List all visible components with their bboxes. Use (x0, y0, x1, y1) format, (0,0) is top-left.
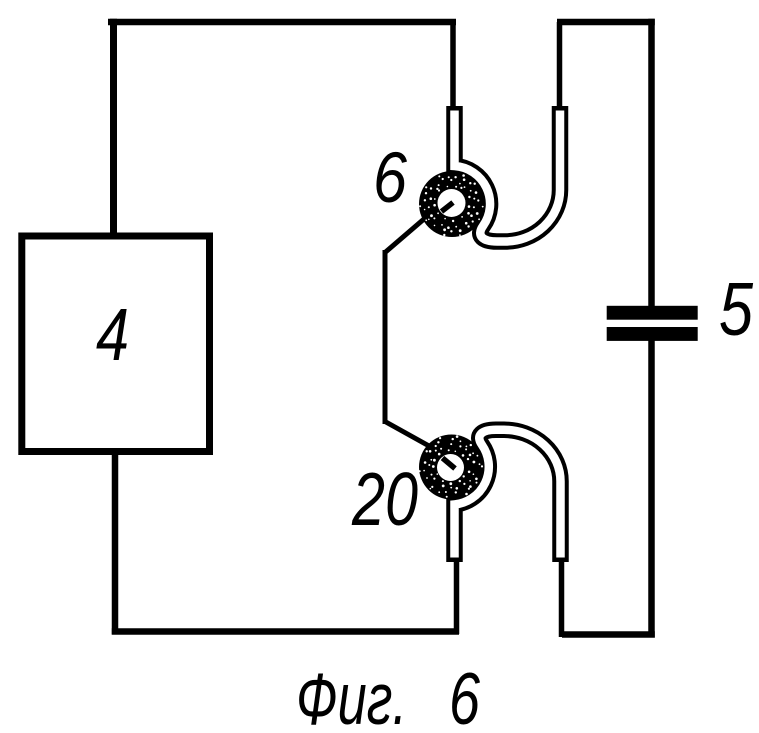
wire: lead from coupler 20 right tube end to bottom rail (559, 558, 565, 637)
svg-text:Фиг.: Фиг. (296, 659, 407, 733)
svg-text:20: 20 (351, 457, 418, 541)
wire: bottom horizontal left (112, 628, 459, 635)
svg-text:6: 6 (449, 659, 480, 733)
wire: top horizontal right (557, 19, 655, 26)
wire: middle vertical link (383, 250, 388, 424)
wire: left vertical upper (top rail down to box 4) (110, 19, 117, 233)
wire: lead from coupler 20 left tube end to bottom rail (454, 558, 460, 634)
capacitor C5 bottom plate (607, 327, 698, 341)
wire: lead from top rail to coupler 6 left tube end (450, 22, 456, 112)
wire: right vertical upper (top rail down to capacitor 5) (648, 19, 655, 306)
wire: pickup lead from middle link down-right to core 20 (385, 422, 430, 447)
svg-text:6: 6 (373, 139, 407, 218)
wire: right vertical lower (capacitor 5 down to bottom right rail) (648, 340, 655, 638)
wire: lead from top rail to coupler 6 right tube end (557, 22, 563, 112)
toroidal core of coupler 6 (stippled ring) (419, 171, 485, 237)
capacitor C5 top plate (607, 306, 698, 320)
wire: left vertical lower (box 4 down to bottom rail) (112, 454, 119, 635)
pickup stub inside core 6 (442, 203, 454, 212)
coupler 20 tube (outer conductor outline) (455, 430, 561, 562)
svg-text:5: 5 (719, 267, 753, 351)
svg-text:4: 4 (96, 293, 129, 376)
coupler 6 tube (outer conductor outline) (455, 106, 561, 242)
wire: top horizontal left (box 4 to coupler 6 left leg) (108, 19, 456, 26)
pickup stub inside core 20 (443, 458, 456, 469)
toroidal core of coupler 20 (stippled ring) (419, 435, 484, 500)
block 4 (rectangle) (22, 236, 210, 452)
wire: bottom horizontal right (562, 631, 655, 638)
wire: pickup lead from core 6 down-left (385, 219, 424, 253)
